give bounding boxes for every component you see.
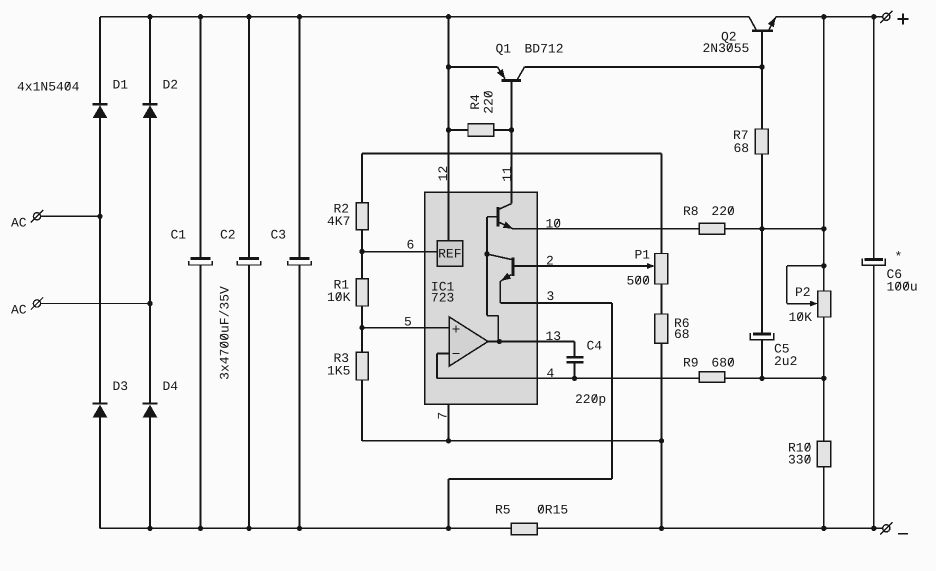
svg-text:P1: P1: [635, 248, 651, 263]
svg-text:D1: D1: [113, 78, 129, 93]
svg-text:7: 7: [436, 412, 451, 420]
svg-text:5: 5: [404, 315, 412, 330]
svg-text:D2: D2: [163, 78, 179, 93]
svg-text:2u2: 2u2: [774, 354, 797, 369]
svg-text:Q1: Q1: [496, 42, 512, 57]
svg-text:REF: REF: [438, 247, 461, 262]
svg-text:3: 3: [547, 289, 555, 304]
svg-text:220: 220: [481, 90, 496, 113]
svg-text:4: 4: [547, 366, 555, 381]
svg-text:680: 680: [711, 356, 734, 371]
svg-text:4x1N5404: 4x1N5404: [17, 80, 80, 95]
svg-text:330: 330: [788, 453, 811, 468]
svg-text:C4: C4: [587, 339, 603, 354]
svg-text:11: 11: [500, 166, 515, 182]
svg-text:P2: P2: [795, 285, 811, 300]
svg-text:13: 13: [546, 329, 562, 344]
svg-text:3x4700uF/35V: 3x4700uF/35V: [218, 286, 233, 380]
svg-text:4K7: 4K7: [327, 214, 350, 229]
svg-text:10K: 10K: [327, 290, 351, 305]
svg-text:AC: AC: [11, 303, 27, 318]
svg-text:R9: R9: [683, 356, 699, 371]
svg-text:R5: R5: [495, 503, 511, 518]
svg-text:68: 68: [674, 327, 690, 342]
svg-text:12: 12: [436, 166, 451, 182]
svg-text:10: 10: [546, 217, 562, 232]
svg-text:BD712: BD712: [525, 42, 564, 57]
svg-text:220: 220: [711, 204, 734, 219]
svg-text:C2: C2: [220, 228, 236, 243]
svg-text:500: 500: [627, 274, 650, 289]
svg-text:2N3055: 2N3055: [703, 41, 750, 56]
svg-text:AC: AC: [11, 215, 27, 230]
svg-text:10K: 10K: [789, 310, 813, 325]
svg-text:*: *: [895, 250, 903, 265]
svg-text:2: 2: [546, 253, 554, 268]
svg-text:C3: C3: [271, 228, 287, 243]
svg-text:100u: 100u: [887, 279, 918, 294]
svg-text:723: 723: [431, 290, 454, 305]
svg-text:R8: R8: [683, 204, 699, 219]
svg-text:1K5: 1K5: [327, 363, 350, 378]
svg-text:220p: 220p: [575, 392, 606, 407]
svg-text:68: 68: [734, 141, 750, 156]
svg-text:0R15: 0R15: [537, 503, 568, 518]
svg-text:D4: D4: [163, 379, 179, 394]
svg-text:6: 6: [407, 238, 415, 253]
svg-text:C1: C1: [171, 228, 187, 243]
svg-text:D3: D3: [113, 379, 129, 394]
